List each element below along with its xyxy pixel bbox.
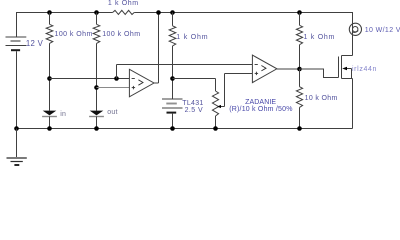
- wire U1 output feedback to rail: [158, 13, 160, 84]
- resistor R1 100 k Ohm: [46, 24, 53, 43]
- op-amp U2: [252, 55, 277, 83]
- node junction R6 top: [297, 10, 302, 15]
- wire node E to Q1 gate: [300, 69, 339, 78]
- wire branch up from node C: [116, 65, 118, 79]
- lamp LP1 10 W 12 V: [349, 23, 361, 35]
- node junction D1 bottom rail: [47, 126, 52, 131]
- wire node B to U1 non-inverting input: [97, 87, 130, 89]
- wire battery bottom lead: [16, 51, 18, 128]
- wire node D to pot top: [173, 78, 216, 80]
- wire R2 top lead: [96, 13, 98, 25]
- resistor R3 1 k Ohm (horizontal zigzag): [113, 10, 135, 14]
- node A junction (R1 / U1 inverting): [47, 76, 52, 81]
- wire R6 bottom lead: [299, 45, 301, 69]
- wire U2 output: [277, 68, 300, 70]
- label R6 value 1 k Ohm: [304, 34, 336, 41]
- wire pot top lead: [215, 79, 217, 92]
- wire top rail left segment: [16, 12, 113, 14]
- ground symbol: [16, 129, 18, 158]
- pot wiper arrow: [224, 74, 226, 107]
- label R4 value 1 k Ohm: [176, 34, 208, 41]
- resistor R6 1 k Ohm: [296, 25, 302, 44]
- diode D1 (in): [43, 111, 57, 116]
- node junction pot bottom rail: [213, 126, 218, 131]
- label diode D2 out: [107, 109, 117, 116]
- wire R7 top lead: [299, 69, 301, 87]
- label battery 12 V: [26, 39, 43, 48]
- resistor R7 10 k Ohm: [296, 87, 302, 108]
- node junction R2 top: [94, 10, 99, 15]
- label R3 value 1 k Ohm: [108, 0, 139, 7]
- potentiometer R5 ZADANIE 10 k Ohm: [212, 91, 218, 116]
- voltage reference U3 TL431 2.5 V: [162, 98, 183, 100]
- label R2 value 100 k Ohm: [102, 31, 140, 38]
- wire pot bottom lead: [215, 116, 217, 129]
- node junction battery-ground on bottom rail: [14, 126, 19, 131]
- wire D2 bottom lead: [96, 117, 98, 129]
- wire R7 bottom lead: [299, 107, 301, 128]
- wire R4 bottom lead: [172, 46, 174, 99]
- wire R1 top lead: [49, 13, 51, 25]
- label pot value (R)/10 k Ohm /50%: [229, 106, 292, 113]
- label R1 value 100 k Ohm: [55, 31, 93, 38]
- node junction D2 bottom rail: [94, 126, 99, 131]
- op-amp U1: [129, 69, 154, 97]
- label TL431: [182, 100, 203, 107]
- label pot name ZADANIE: [245, 99, 276, 106]
- wire source to bottom rail: [352, 79, 354, 129]
- node B junction (R2 / U1 non-inverting): [94, 85, 99, 90]
- node junction U1 output at rail: [156, 10, 161, 15]
- wire U1 output: [154, 82, 159, 84]
- node junction R1 top: [47, 10, 52, 15]
- label diode D1 in: [60, 111, 66, 118]
- node junction R7 bottom rail: [297, 126, 302, 131]
- label R7 value 10 k Ohm: [305, 95, 338, 102]
- node D junction (R4 / TL431 / pot): [170, 76, 175, 81]
- wire D1 bottom lead: [49, 117, 51, 129]
- node E junction (U2 out / gate / R7): [297, 67, 302, 72]
- wire R4 top lead: [172, 13, 174, 26]
- label TL431 2.5 V: [185, 107, 204, 114]
- resistor R2 100 k Ohm: [93, 24, 100, 43]
- wire bottom rail: [16, 128, 353, 130]
- transistor Q1 irlz44n: [338, 57, 340, 78]
- wire R1 bottom lead: [49, 43, 51, 110]
- resistor R4 1 k Ohm: [169, 26, 176, 46]
- wire node A to U1 inverting input: [50, 78, 130, 80]
- wire top rail right segment: [134, 12, 352, 14]
- node junction R4 top: [170, 10, 175, 15]
- label Q1 irlz44n: [352, 66, 377, 73]
- wire drain to lamp column: [352, 12, 354, 56]
- wire TL431 bottom lead: [172, 114, 174, 129]
- diode D2 (out): [90, 111, 104, 116]
- battery V1 12 V: [6, 36, 27, 38]
- label lamp 10 W/12 V: [365, 27, 400, 34]
- node C junction (branch to U2): [114, 76, 119, 81]
- wire battery top lead: [16, 12, 18, 37]
- wire R2 bottom lead: [96, 43, 98, 110]
- wire node C to U2 inverting input: [117, 64, 253, 66]
- wire R6 top lead: [299, 13, 301, 26]
- node junction TL431 bottom rail: [170, 126, 175, 131]
- wire wiper to U2 non-inverting input: [225, 73, 253, 75]
